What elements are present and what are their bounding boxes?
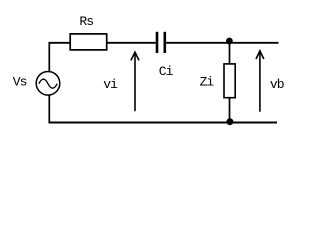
capacitor C1 left plate (156, 32, 159, 53)
wire bottom rail (49, 122, 278, 124)
impedance Zi (224, 64, 235, 98)
svg-text:Rs: Rs (79, 14, 93, 29)
svg-text:vi: vi (103, 77, 118, 92)
node top junction dot (226, 38, 233, 45)
svg-text:vb: vb (270, 77, 284, 92)
arrow vb head (256, 51, 264, 59)
wire left vertical bottom (source to bottom rail) (48, 95, 50, 123)
wire dot to Zi top (229, 42, 231, 65)
node bottom junction dot (226, 118, 233, 125)
sine wave inside source (39, 79, 57, 88)
wire top rail segment C (capacitor to right end) (166, 42, 278, 44)
arrow vi shaft (134, 52, 136, 111)
capacitor C1 right plate (164, 32, 167, 53)
svg-text:Zi: Zi (200, 75, 215, 90)
voltage source Vs (36, 72, 60, 96)
wire top rail segment A (corner to resistor) (49, 42, 71, 44)
wire Zi bottom to bottom dot (229, 98, 231, 122)
wire top rail segment B (resistor to capacitor) (107, 42, 156, 44)
svg-text:Ci: Ci (159, 64, 174, 79)
wire left vertical top (source to top rail) (48, 42, 50, 72)
arrow vi head (131, 52, 139, 60)
svg-text:Vs: Vs (13, 75, 27, 90)
arrow vb shaft (259, 51, 261, 112)
resistor Rs (70, 34, 107, 50)
